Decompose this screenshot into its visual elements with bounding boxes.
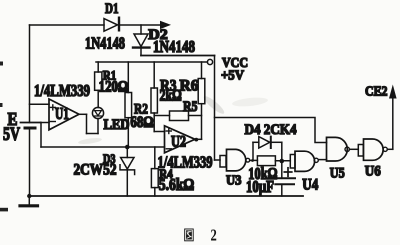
svg-text:U4: U4 <box>302 177 318 194</box>
wire: branch to U5 top input <box>215 118 327 143</box>
diode D2 <box>133 25 150 56</box>
wire: long horizontal to U2 minus input <box>41 146 165 148</box>
wire: U2 output to feedback corner <box>195 138 202 140</box>
arrowhead at end of top wire <box>160 21 171 29</box>
svg-text:R5: R5 <box>183 99 198 115</box>
wire: vertical down from minus-input node <box>40 123 42 148</box>
resistor 10k horizontal <box>257 156 290 166</box>
svg-text:10μF: 10μF <box>246 177 274 196</box>
junction dot at ground rail left <box>27 194 31 198</box>
wire: U4 output to U5 input <box>318 159 326 161</box>
junction dot after 10k <box>280 159 285 164</box>
resistor R4 <box>151 147 158 196</box>
svg-text:5V: 5V <box>3 125 20 145</box>
wire: U1 plus input <box>30 103 50 105</box>
wire: main vertical bus <box>214 56 216 161</box>
svg-text:+5V: +5V <box>221 69 244 84</box>
junction dot D3/R2 node <box>125 145 130 150</box>
svg-text:120Ω: 120Ω <box>99 79 128 96</box>
ground symbol <box>20 196 38 206</box>
svg-text:U6: U6 <box>365 164 381 180</box>
capacitor 10uF <box>275 161 296 196</box>
wire: U2 plus input <box>154 131 164 133</box>
diode D1 <box>104 18 119 32</box>
resistor R2 <box>125 62 132 147</box>
svg-text:U2: U2 <box>171 134 186 151</box>
VCC rail horizontal <box>96 61 207 63</box>
svg-text:1N4148: 1N4148 <box>153 37 195 56</box>
caption: figure glyph (drawn) <box>184 229 194 242</box>
wire: U1 minus input from battery plate <box>41 122 50 124</box>
VCC terminal circle <box>207 59 212 64</box>
svg-text:CE2: CE2 <box>365 85 388 100</box>
wire: jog into U3 input <box>215 159 221 161</box>
battery E <box>21 123 41 197</box>
svg-text:1N4148: 1N4148 <box>85 33 125 52</box>
svg-text:U5: U5 <box>330 166 345 182</box>
wire: U1 output down <box>86 114 88 133</box>
wire: up to LED cathode <box>97 119 99 134</box>
wire: U1 output bottom horizontal <box>87 133 99 135</box>
resistor R5 <box>154 111 201 121</box>
zener diode D3 <box>120 147 135 196</box>
svg-text:68Ω: 68Ω <box>130 114 153 131</box>
LED <box>92 107 103 118</box>
svg-text:2: 2 <box>211 225 217 244</box>
resistor R6 <box>198 62 205 139</box>
resistor R1 <box>95 62 102 108</box>
label plus of capacitor <box>284 168 292 177</box>
arrowhead CE2 <box>389 85 397 99</box>
resistor R3 <box>151 62 157 132</box>
wire: D2 to right vertical bus <box>141 55 215 57</box>
nand gate U5 <box>327 137 350 161</box>
svg-text:2kΩ: 2kΩ <box>160 88 182 105</box>
wire: top horizontal right segment <box>119 24 160 26</box>
svg-text:D4 2CK4: D4 2CK4 <box>245 122 297 138</box>
svg-text:R6: R6 <box>180 78 199 95</box>
wire: left vertical rail <box>29 25 31 123</box>
wire: CE2 vertical <box>392 97 394 149</box>
wire: U6 output right <box>387 148 392 150</box>
ground rail bottom <box>29 195 303 197</box>
wire: top horizontal left segment <box>30 24 105 26</box>
svg-text:U3: U3 <box>226 174 242 189</box>
svg-text:5.6kΩ: 5.6kΩ <box>159 175 195 194</box>
svg-text:U1: U1 <box>55 104 69 123</box>
diode D4 bypass branch <box>253 137 282 161</box>
scan smudges (decorative) <box>0 62 268 212</box>
op-amp U1 <box>49 99 79 130</box>
svg-text:1/4LM339: 1/4LM339 <box>34 81 90 100</box>
wire: U1 output stub <box>79 113 87 115</box>
svg-text:LED: LED <box>104 117 130 133</box>
nand gate U3 <box>220 149 250 171</box>
junction at U2 output <box>194 138 198 142</box>
nand gate U6 <box>358 139 387 160</box>
svg-text:2CW52: 2CW52 <box>74 162 117 179</box>
svg-text:D1: D1 <box>105 1 119 17</box>
nand gate U4 <box>290 151 318 171</box>
op-amp U2 <box>165 126 196 153</box>
wire: U3 output <box>250 159 258 161</box>
junction blob at U3 output / D4 tap <box>251 159 254 162</box>
wire: U5 output to U6 <box>350 148 359 150</box>
